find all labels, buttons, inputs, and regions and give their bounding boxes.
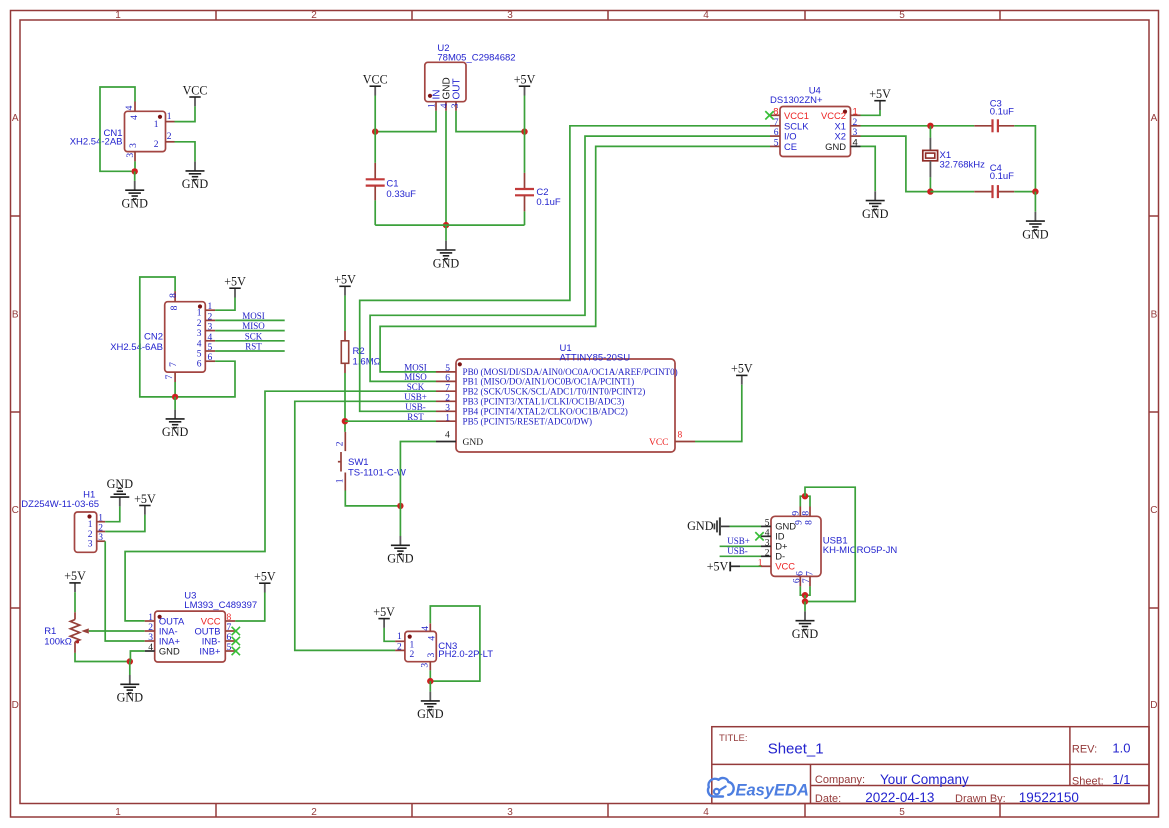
svg-text:8: 8 bbox=[169, 293, 179, 298]
svg-text:3: 3 bbox=[129, 143, 139, 148]
svg-text:C: C bbox=[1150, 505, 1157, 516]
CN1 pin1 dot bbox=[158, 115, 162, 119]
svg-text:2: 2 bbox=[397, 642, 402, 652]
wire USB+ U1 to CN3 pin2 bbox=[295, 401, 436, 650]
svg-text:6: 6 bbox=[208, 353, 213, 363]
CN2 pin 6 bbox=[205, 360, 215, 362]
junction USB1 bottom pins bbox=[802, 592, 808, 598]
svg-text:4: 4 bbox=[130, 115, 140, 120]
svg-text:2: 2 bbox=[311, 10, 317, 21]
wire RST U1 to junction bbox=[345, 420, 436, 422]
U1 pin 7 bbox=[436, 390, 456, 392]
svg-text:GND: GND bbox=[463, 438, 484, 448]
ground flag GND at USB1 pin5 bbox=[687, 517, 729, 535]
svg-text:8: 8 bbox=[678, 431, 683, 441]
frame row letters left bbox=[12, 113, 19, 711]
resistor R2 bbox=[341, 331, 348, 373]
svg-text:Drawn By:: Drawn By: bbox=[955, 793, 1006, 805]
svg-text:1: 1 bbox=[397, 632, 402, 642]
ground below R1 bbox=[117, 675, 144, 705]
wire MOSI U1 to U4 CE bbox=[380, 146, 770, 372]
svg-text:SW1: SW1 bbox=[348, 457, 369, 468]
CN2 pin 2 bbox=[205, 319, 215, 321]
power +5V at U1 bbox=[731, 362, 753, 385]
power +5V at U3 bbox=[254, 570, 276, 593]
svg-text:PH2.0-2P-LT: PH2.0-2P-LT bbox=[438, 649, 493, 660]
U4 pin 5 CE bbox=[770, 145, 780, 147]
svg-text:1: 1 bbox=[148, 613, 153, 623]
svg-text:GND: GND bbox=[825, 141, 846, 152]
U3 pin 3 INA+ bbox=[145, 640, 155, 642]
connector CN1 bbox=[125, 111, 166, 151]
svg-text:1: 1 bbox=[115, 807, 121, 818]
svg-text:9: 9 bbox=[792, 511, 802, 516]
title block REV bbox=[1072, 741, 1131, 756]
svg-text:3: 3 bbox=[427, 652, 437, 657]
power +5V at U4 bbox=[869, 87, 891, 110]
svg-text:VCC: VCC bbox=[649, 438, 669, 448]
wire bottom rail C1-C2 bbox=[375, 224, 524, 226]
svg-text:2: 2 bbox=[445, 393, 450, 403]
svg-text:TITLE:: TITLE: bbox=[719, 733, 748, 744]
wire CN2 pin6 loop bbox=[175, 361, 235, 397]
svg-text:3: 3 bbox=[421, 663, 431, 668]
svg-text:7: 7 bbox=[165, 374, 175, 379]
wire U3 VCC to +5V bbox=[235, 593, 264, 622]
wire CN2 net MISO bbox=[215, 330, 285, 332]
junction SW1/U1 ground bbox=[397, 503, 403, 509]
svg-text:XH2.54-2AB: XH2.54-2AB bbox=[70, 137, 123, 148]
svg-text:MISO: MISO bbox=[404, 372, 427, 382]
U3 pin 2 INA- bbox=[145, 630, 155, 632]
H1 pin1 dot bbox=[87, 514, 91, 518]
CN1 labels bbox=[70, 128, 123, 148]
U4 pin 7 SCLK bbox=[770, 125, 780, 127]
wire USB- U1 to U4 SCLK bbox=[360, 126, 770, 412]
svg-text:PB0 (MOSI/DI/SDA/AIN0/OC0A/OC1: PB0 (MOSI/DI/SDA/AIN0/OC0A/OC1A/AREF/PCI… bbox=[463, 367, 678, 377]
ground below CN1 bbox=[121, 181, 148, 211]
svg-text:1: 1 bbox=[208, 302, 213, 312]
junction crystal bottom bbox=[927, 188, 933, 194]
wire MISO U1 to U4 I/O bbox=[370, 136, 770, 381]
svg-text:1: 1 bbox=[445, 413, 450, 423]
wire +5V to R2 bbox=[344, 296, 346, 331]
power +5V at U2 bbox=[514, 73, 536, 96]
wire U1 GND to node bbox=[400, 442, 436, 506]
svg-text:PB4 (PCINT4/XTAL2/CLKO/OC1B/AD: PB4 (PCINT4/XTAL2/CLKO/OC1B/ADC2) bbox=[463, 407, 628, 417]
svg-text:Company:: Company: bbox=[815, 774, 865, 786]
CN2 pin 8 bbox=[174, 291, 176, 302]
wire CN2 pin1 to +5V bbox=[215, 298, 235, 311]
U4 pin 3 X2 bbox=[851, 135, 861, 137]
C2 labels bbox=[536, 187, 560, 208]
regulator U2 bbox=[425, 62, 466, 101]
wire CN2 net MOSI bbox=[215, 319, 285, 321]
U1 pin 3 bbox=[436, 410, 456, 412]
svg-text:RST: RST bbox=[245, 342, 262, 352]
svg-text:A: A bbox=[12, 113, 19, 124]
wire CN3 pin4 loop to pin3 bbox=[430, 606, 480, 681]
svg-text:1.0: 1.0 bbox=[1112, 741, 1130, 756]
ground below USB1 bbox=[792, 611, 819, 641]
svg-text:1: 1 bbox=[336, 478, 346, 483]
U4 labels bbox=[770, 86, 823, 107]
svg-text:0.1uF: 0.1uF bbox=[990, 171, 1014, 182]
svg-text:VCC1: VCC1 bbox=[784, 110, 809, 121]
connector CN2 bbox=[165, 302, 206, 372]
svg-text:1: 1 bbox=[88, 520, 93, 530]
svg-text:5: 5 bbox=[765, 518, 770, 528]
wire CN1 pin1 to VCC bbox=[175, 106, 196, 121]
svg-text:5: 5 bbox=[774, 138, 779, 148]
capacitor C2 bbox=[515, 173, 534, 212]
CN3 pin 2 bbox=[395, 649, 405, 651]
CN3 pin 3 numbers bbox=[421, 652, 437, 667]
title block Date row bbox=[815, 790, 1079, 805]
svg-text:7: 7 bbox=[169, 362, 179, 367]
junction +5V rail bbox=[521, 128, 527, 134]
svg-text:1: 1 bbox=[167, 112, 172, 122]
U1 pin 4 texts bbox=[445, 431, 483, 448]
CN1 pin 4 bbox=[134, 102, 136, 112]
wire U4 X1 to C3 bbox=[861, 125, 975, 127]
svg-text:4: 4 bbox=[703, 807, 709, 818]
H1 pin 1 bbox=[97, 521, 106, 523]
svg-text:XH2.54-6AB: XH2.54-6AB bbox=[110, 342, 163, 353]
U1 pin 5 bbox=[436, 371, 456, 373]
svg-text:2: 2 bbox=[311, 807, 317, 818]
svg-text:Sheet_1: Sheet_1 bbox=[768, 741, 824, 758]
svg-text:1: 1 bbox=[197, 309, 202, 319]
svg-text:MISO: MISO bbox=[242, 321, 265, 331]
wire to ground below SW1 bbox=[399, 506, 401, 536]
title block Sheet number bbox=[1072, 772, 1131, 788]
CN1 pin 1 numbers bbox=[154, 112, 172, 130]
power +5V above R1 bbox=[64, 569, 86, 592]
CN2 pin 7 numbers bbox=[165, 362, 179, 380]
H1 labels bbox=[21, 490, 99, 511]
junction USB1 shield/ground bbox=[802, 598, 808, 604]
junction R1/U3 ground bbox=[127, 658, 133, 664]
svg-text:3: 3 bbox=[197, 329, 202, 339]
SW1 pin numbers bbox=[336, 441, 346, 483]
svg-text:C2: C2 bbox=[536, 187, 548, 198]
X1 labels bbox=[940, 150, 986, 170]
power +5V at CN3 bbox=[373, 605, 395, 628]
svg-text:4: 4 bbox=[445, 431, 450, 441]
svg-text:4: 4 bbox=[428, 636, 438, 641]
no-connect X on U3 pin 6 bbox=[232, 637, 240, 645]
svg-text:USB+: USB+ bbox=[727, 536, 750, 546]
svg-text:4: 4 bbox=[421, 626, 431, 631]
wire USB+ stub to USB1 D+ bbox=[720, 545, 761, 547]
MCU U1 bbox=[456, 359, 675, 452]
wire SCK U1 to U3 OUTA bbox=[125, 391, 436, 621]
USB1 pin 9 bbox=[799, 507, 801, 517]
svg-text:2: 2 bbox=[154, 140, 159, 150]
CN3 pin 1 bbox=[395, 640, 405, 642]
power flag +5V at USB1 pin1 bbox=[707, 560, 740, 574]
svg-text:VCC: VCC bbox=[775, 561, 795, 572]
power +5V above R2 bbox=[334, 273, 356, 296]
wire C4 right bbox=[1014, 191, 1035, 193]
frame column numbers bottom bbox=[115, 807, 905, 818]
CN3 pin1 dot bbox=[408, 635, 412, 639]
wire U4 GND bbox=[861, 146, 876, 191]
svg-text:DZ254W-11-03-65: DZ254W-11-03-65 bbox=[21, 499, 99, 510]
svg-text:8: 8 bbox=[804, 520, 814, 525]
ground below U4 bbox=[862, 191, 889, 221]
wire CN1 pin3 down bbox=[134, 161, 136, 171]
wire U3 GND to node bbox=[130, 651, 144, 662]
wire CN1 pin2 to GND bbox=[175, 142, 196, 162]
svg-text:KH-MICRO5P-JN: KH-MICRO5P-JN bbox=[823, 545, 898, 556]
CN1 pin 2 numbers bbox=[154, 132, 172, 150]
wire R1 bottom to ground node bbox=[75, 653, 130, 662]
svg-text:CN2: CN2 bbox=[144, 332, 163, 343]
svg-text:3: 3 bbox=[765, 538, 770, 548]
svg-text:7: 7 bbox=[227, 623, 232, 633]
CN2 pin 8 numbers bbox=[169, 293, 180, 311]
C4 labels bbox=[990, 163, 1014, 182]
title block frame bbox=[712, 727, 1149, 804]
svg-text:RST: RST bbox=[407, 412, 424, 422]
CN3 pin 2 numbers bbox=[397, 642, 415, 660]
svg-text:100kΩ: 100kΩ bbox=[44, 636, 72, 647]
USB1 pin 1 VCC bbox=[761, 565, 771, 567]
svg-text:4: 4 bbox=[125, 105, 135, 110]
svg-text:USB-: USB- bbox=[727, 546, 748, 556]
svg-text:6: 6 bbox=[774, 128, 779, 138]
U3 pin 6 INB- bbox=[225, 640, 235, 642]
svg-text:6: 6 bbox=[227, 633, 232, 643]
CN2 pin1 dot bbox=[198, 304, 202, 308]
svg-text:SCK: SCK bbox=[407, 382, 425, 392]
ground below CN3 bbox=[417, 692, 444, 722]
svg-text:2: 2 bbox=[197, 319, 202, 329]
U4 pin 8 VCC1 bbox=[770, 114, 780, 116]
wire U2 OUT to +5V rail bbox=[456, 111, 525, 132]
U3 pin 5 INB+ bbox=[225, 650, 235, 652]
U2 pin 1 IN bbox=[435, 102, 437, 111]
ground above H1 bbox=[107, 477, 134, 507]
ground below SW1 bbox=[387, 536, 414, 566]
svg-text:ATTINY85-20SU: ATTINY85-20SU bbox=[560, 352, 631, 363]
H1 pin 3 bbox=[97, 540, 106, 542]
wire USB1 shield loop bbox=[805, 487, 855, 601]
wire CN2 net RST bbox=[215, 350, 285, 352]
svg-text:6: 6 bbox=[197, 360, 202, 370]
svg-text:19522150: 19522150 bbox=[1019, 790, 1079, 805]
wire CN2 to ground bbox=[174, 397, 176, 410]
wire R2 to RST junction bbox=[344, 373, 346, 432]
U4 pin 1 VCC2 bbox=[851, 114, 861, 116]
svg-text:1: 1 bbox=[428, 103, 438, 108]
U1 pin 4 GND bbox=[436, 441, 456, 443]
U2 labels bbox=[437, 43, 515, 64]
svg-text:8: 8 bbox=[801, 511, 811, 516]
capacitor C4 bbox=[930, 185, 1014, 198]
wire CN2 pin8 loop bbox=[140, 277, 175, 397]
U1 pin 2 bbox=[436, 400, 456, 402]
svg-text:32.768kHz: 32.768kHz bbox=[940, 160, 986, 171]
wire R1 wiper to U3 INA- bbox=[89, 630, 145, 632]
svg-text:OUT: OUT bbox=[452, 78, 463, 99]
svg-text:2: 2 bbox=[208, 312, 213, 322]
svg-text:3: 3 bbox=[507, 807, 513, 818]
svg-text:1: 1 bbox=[98, 514, 103, 524]
svg-text:REV:: REV: bbox=[1072, 744, 1097, 756]
U3 labels bbox=[184, 591, 257, 612]
wire SW1 pin1 to ground node bbox=[345, 491, 400, 506]
wire USB1 bottom node bbox=[804, 595, 806, 601]
svg-text:2: 2 bbox=[98, 524, 103, 534]
ground below CN2 bbox=[162, 410, 189, 440]
CN3 pin 4 numbers bbox=[421, 626, 437, 641]
ground below C4 bbox=[1022, 212, 1049, 242]
svg-text:1: 1 bbox=[115, 10, 121, 21]
CN1 pin 1 bbox=[166, 121, 175, 123]
svg-text:1.6MΩ: 1.6MΩ bbox=[353, 357, 381, 368]
wire CN3 pin3 down bbox=[429, 670, 431, 681]
wire node to ground bbox=[129, 662, 131, 676]
svg-text:PB3 (PCINT3/XTAL1/CLKI/OC1B/AD: PB3 (PCINT3/XTAL1/CLKI/OC1B/ADC3) bbox=[463, 397, 625, 407]
power +5V at CN2 bbox=[224, 275, 246, 298]
U3 pin 7 OUTB bbox=[225, 630, 235, 632]
wire CN3 node to ground bbox=[429, 681, 431, 692]
CN1 pin 3 numbers bbox=[126, 143, 139, 158]
CN1 pin 2 bbox=[166, 141, 175, 143]
U4 pin 2 X1 bbox=[851, 125, 861, 127]
wire +5V to R1 bbox=[74, 592, 76, 612]
svg-text:3: 3 bbox=[451, 103, 461, 108]
U1 pin1 dot bbox=[458, 362, 462, 366]
wire H1 pin1 to ground flag bbox=[105, 506, 120, 521]
U4 pin 6 I/O bbox=[770, 135, 780, 137]
C3 labels bbox=[990, 98, 1014, 117]
svg-text:2: 2 bbox=[853, 118, 858, 128]
CN3 pin 4 bbox=[429, 623, 431, 631]
svg-text:C1: C1 bbox=[386, 179, 398, 190]
U4 pin1 dot bbox=[843, 110, 847, 114]
no-connect X on U4 pin 8 bbox=[765, 111, 773, 119]
wire CN2 pin7 down bbox=[174, 382, 176, 397]
U1 pin 6 bbox=[436, 380, 456, 382]
U3 pin 4 GND bbox=[145, 650, 155, 652]
potentiometer R1 bbox=[70, 612, 89, 653]
svg-text:PB1 (MISO/DO/AIN1/OC0B/OC1A/PC: PB1 (MISO/DO/AIN1/OC0B/OC1A/PCINT1) bbox=[463, 377, 635, 387]
USB1 labels bbox=[823, 536, 898, 556]
svg-text:3: 3 bbox=[98, 533, 103, 543]
frame column numbers top bbox=[115, 10, 905, 21]
junction CN3 ground node bbox=[427, 678, 433, 684]
USB1 pin 2 D- bbox=[761, 555, 771, 557]
wire U2 GND down bbox=[445, 111, 447, 225]
wire H1 pin2 to +5V bbox=[105, 515, 145, 532]
connector H1 bbox=[75, 512, 97, 552]
CN2 pin 4 bbox=[205, 340, 215, 342]
junction CN2 ground node bbox=[172, 394, 178, 400]
svg-text:VCC2: VCC2 bbox=[821, 110, 846, 121]
svg-text:DS1302ZN+: DS1302ZN+ bbox=[770, 95, 823, 106]
USB1 bottom pin numbers bbox=[793, 571, 816, 583]
connector USB1 bbox=[771, 516, 821, 576]
svg-text:5: 5 bbox=[208, 343, 213, 353]
svg-text:B: B bbox=[1151, 310, 1158, 321]
svg-text:3: 3 bbox=[208, 323, 213, 333]
RTC U4 bbox=[780, 107, 851, 157]
svg-text:5: 5 bbox=[227, 643, 232, 653]
CN2 pin 1 bbox=[205, 309, 215, 311]
wire USB- stub to USB1 D- bbox=[720, 555, 761, 557]
svg-text:4: 4 bbox=[853, 137, 858, 148]
wire VCC vertical bbox=[374, 96, 376, 163]
CN2 pin 3 bbox=[205, 330, 215, 332]
net label USB- at USB1 bbox=[727, 546, 748, 556]
wire GND flag to USB1 pin5 bbox=[730, 525, 762, 527]
no-connect X on U3 pin 5 bbox=[232, 647, 240, 655]
R2 labels bbox=[353, 346, 381, 368]
svg-text:2: 2 bbox=[336, 441, 346, 446]
EasyEDA logo bbox=[708, 778, 809, 799]
svg-text:PB5 (PCINT5/RESET/ADC0/DW): PB5 (PCINT5/RESET/ADC0/DW) bbox=[463, 417, 593, 427]
wire H1 pin3 to U3 INA+ bbox=[105, 541, 145, 641]
U1 pin 1 bbox=[436, 420, 456, 422]
U2 pin1 dot bbox=[428, 94, 432, 98]
CN3 pin 1 numbers bbox=[397, 632, 415, 650]
CN3 labels bbox=[438, 641, 493, 660]
CN2 labels bbox=[110, 332, 163, 354]
wire C3 right down bbox=[1014, 126, 1035, 192]
svg-text:Sheet:: Sheet: bbox=[1072, 776, 1104, 788]
wire USB1 top pins bbox=[800, 496, 810, 506]
svg-text:7: 7 bbox=[805, 571, 815, 576]
wire junction to ground bbox=[134, 171, 136, 181]
U1 pin 8 texts bbox=[649, 431, 683, 448]
svg-text:2: 2 bbox=[765, 548, 770, 558]
svg-text:SCK: SCK bbox=[245, 331, 263, 341]
svg-text:2: 2 bbox=[167, 132, 172, 142]
USB1 top pin numbers bbox=[792, 511, 815, 525]
ground below CN1 pin2 bbox=[182, 162, 209, 192]
svg-text:D: D bbox=[12, 700, 19, 711]
connector CN3 bbox=[405, 631, 436, 661]
svg-text:GND: GND bbox=[159, 645, 180, 656]
svg-text:1/1: 1/1 bbox=[1112, 772, 1130, 787]
power VCC at CN1 bbox=[183, 83, 208, 106]
svg-text:9: 9 bbox=[795, 520, 805, 525]
switch SW1 bbox=[338, 432, 345, 491]
svg-text:INB+: INB+ bbox=[199, 645, 221, 656]
svg-text:8: 8 bbox=[227, 613, 232, 623]
junction crystal top bbox=[927, 123, 933, 129]
svg-text:TS-1101-C-W: TS-1101-C-W bbox=[348, 467, 406, 478]
wire CN1 pin4 loop to pin3 bbox=[100, 87, 135, 171]
wire CN2 net SCK bbox=[215, 340, 285, 342]
svg-text:3: 3 bbox=[126, 153, 136, 158]
junction C3/C4 right bbox=[1032, 188, 1038, 194]
svg-text:1: 1 bbox=[853, 106, 858, 117]
svg-text:2: 2 bbox=[410, 650, 415, 660]
frame row letters right bbox=[1150, 113, 1157, 711]
CN2 pin 7 bbox=[174, 372, 176, 382]
wire CN3 pin1 to +5V bbox=[384, 628, 395, 641]
wire C1 bottom bbox=[374, 200, 376, 225]
svg-text:4: 4 bbox=[148, 643, 153, 653]
wire ground drop U2 bbox=[445, 225, 447, 241]
H1 pin 2 bbox=[97, 531, 106, 533]
crystal X1 bbox=[923, 126, 938, 192]
